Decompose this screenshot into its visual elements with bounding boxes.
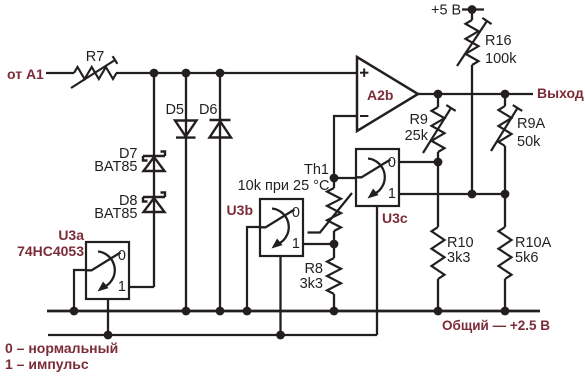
- node: [330, 240, 339, 249]
- wire: [116, 72, 357, 74]
- analog switch U3c: [356, 149, 408, 226]
- wire: [130, 286, 154, 288]
- svg-text:74HC4053: 74HC4053: [17, 243, 84, 259]
- node: [104, 331, 113, 340]
- svg-text:50k: 50k: [517, 134, 541, 150]
- svg-text:Общий — +2.5 В: Общий — +2.5 В: [442, 318, 550, 333]
- common rail (Общий +2.5 В): [47, 311, 550, 333]
- svg-text:5k6: 5k6: [515, 250, 538, 266]
- resistor R16 (variable): [457, 10, 517, 68]
- node: [243, 307, 252, 316]
- svg-text:Выход: Выход: [537, 85, 584, 101]
- wire: [399, 161, 438, 163]
- svg-text:3k3: 3k3: [300, 276, 323, 292]
- svg-text:10k при 25 °C: 10k при 25 °C: [238, 178, 330, 194]
- svg-text:Th1: Th1: [304, 162, 329, 178]
- node: [434, 307, 443, 316]
- wire: [46, 72, 74, 74]
- node: [330, 307, 339, 316]
- node: [182, 69, 191, 78]
- node: [276, 331, 285, 340]
- svg-text:+5 В: +5 В: [431, 3, 461, 19]
- resistor R8: [300, 244, 341, 311]
- node: [468, 190, 477, 199]
- node: [182, 307, 191, 316]
- diode D7 BAT85: [94, 146, 165, 175]
- svg-text:25k: 25k: [405, 128, 429, 144]
- resistor R10A: [499, 194, 552, 311]
- node: [150, 69, 159, 78]
- node: [216, 307, 225, 316]
- +5 V supply stub: [431, 3, 484, 19]
- svg-text:0: 0: [118, 248, 126, 264]
- analog switch U3a 74HC4053: [17, 227, 129, 299]
- analog switch U3b: [227, 199, 303, 256]
- svg-text:R16: R16: [485, 33, 512, 49]
- node: [501, 90, 510, 99]
- resistor R9A (variable): [491, 94, 546, 194]
- wire: [247, 227, 260, 311]
- svg-text:R10: R10: [447, 235, 474, 251]
- svg-text:U3c: U3c: [382, 210, 408, 226]
- wire (inverting input feedback): [334, 116, 357, 178]
- svg-text:0: 0: [388, 155, 396, 171]
- op-amp A2b: [357, 57, 418, 131]
- node: [501, 307, 510, 316]
- node: [434, 158, 443, 167]
- resistor R7 (variable): [71, 49, 117, 88]
- svg-text:BAT85: BAT85: [94, 206, 137, 222]
- wire: [399, 193, 505, 195]
- wire: [219, 73, 221, 311]
- svg-text:U3a: U3a: [58, 227, 84, 243]
- svg-text:A2b: A2b: [367, 87, 393, 103]
- node: [468, 5, 477, 14]
- wire: [185, 73, 187, 311]
- svg-text:от A1: от A1: [7, 66, 44, 82]
- wire (U3c select pin): [376, 206, 378, 335]
- wire: [334, 177, 356, 179]
- node: [70, 307, 79, 316]
- svg-text:100k: 100k: [485, 51, 517, 67]
- svg-text:D5: D5: [165, 102, 184, 118]
- node: [501, 190, 510, 199]
- svg-text:R7: R7: [86, 49, 105, 65]
- svg-text:1 – импульс: 1 – импульс: [5, 356, 89, 372]
- svg-text:BAT85: BAT85: [94, 159, 137, 175]
- resistor R9 (variable): [405, 94, 456, 162]
- svg-text:0: 0: [292, 205, 300, 221]
- svg-text:D6: D6: [199, 102, 218, 118]
- svg-text:R10A: R10A: [515, 235, 552, 251]
- svg-text:R9A: R9A: [517, 116, 546, 132]
- wire (switch control line): [48, 334, 377, 336]
- node: [330, 174, 339, 183]
- svg-text:R8: R8: [304, 261, 323, 277]
- diode D8 BAT85: [94, 193, 165, 223]
- diode D5: [165, 102, 196, 138]
- wire: [153, 73, 155, 287]
- wire (U3a select pin): [107, 299, 109, 335]
- svg-text:R9: R9: [409, 112, 428, 128]
- node: [434, 90, 443, 99]
- diode D6: [199, 102, 231, 138]
- svg-text:1: 1: [388, 186, 396, 202]
- svg-text:3k3: 3k3: [447, 250, 470, 266]
- wire: [471, 65, 473, 194]
- thermistor Th1 10k at 25C: [238, 162, 352, 244]
- svg-text:1: 1: [292, 236, 300, 252]
- svg-text:U3b: U3b: [227, 202, 253, 218]
- wire: [74, 270, 86, 311]
- svg-text:1: 1: [118, 279, 126, 295]
- wire (output): [418, 93, 533, 95]
- resistor R10: [432, 162, 474, 311]
- svg-text:0 – нормальный: 0 – нормальный: [5, 340, 118, 356]
- wire (U3b select pin): [279, 256, 281, 335]
- node: [216, 69, 225, 78]
- wire: [303, 243, 334, 245]
